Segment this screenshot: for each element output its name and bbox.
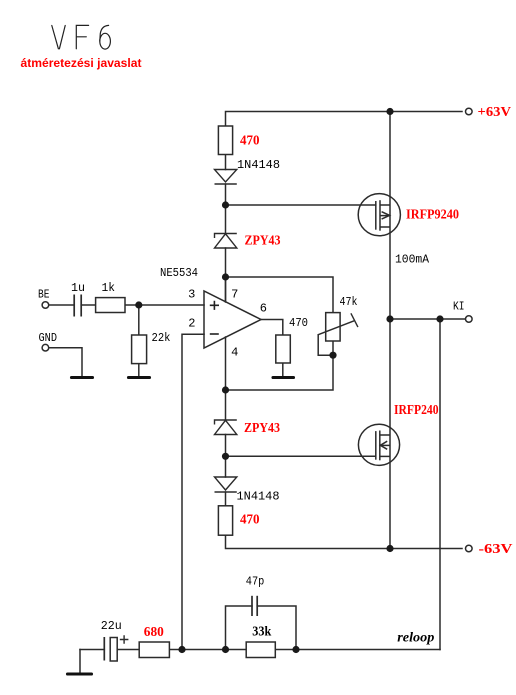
svg-text:-63V: -63V: [479, 542, 513, 557]
svg-text:22u: 22u: [101, 619, 122, 633]
svg-text:ZPY43: ZPY43: [245, 234, 281, 249]
svg-text:1N4148: 1N4148: [237, 490, 280, 504]
svg-text:1N4148: 1N4148: [237, 158, 280, 172]
svg-text:47p: 47p: [246, 575, 264, 589]
svg-text:3: 3: [188, 288, 195, 302]
svg-text:680: 680: [144, 625, 164, 640]
svg-text:IRFP9240: IRFP9240: [406, 208, 459, 223]
svg-text:BE: BE: [38, 288, 50, 302]
svg-text:470: 470: [240, 134, 260, 149]
svg-text:KI: KI: [453, 300, 465, 314]
svg-text:470: 470: [240, 513, 260, 528]
svg-text:IRFP240: IRFP240: [394, 403, 439, 418]
svg-text:33k: 33k: [252, 625, 271, 640]
svg-text:1u: 1u: [71, 281, 85, 295]
svg-text:47k: 47k: [340, 295, 358, 309]
svg-text:2: 2: [188, 317, 195, 331]
svg-text:átméretezési javaslat: átméretezési javaslat: [21, 56, 142, 70]
svg-text:NE5534: NE5534: [160, 266, 198, 280]
svg-text:ZPY43: ZPY43: [244, 421, 280, 436]
svg-text:22k: 22k: [152, 331, 171, 345]
svg-text:6: 6: [260, 302, 267, 316]
svg-text:100mA: 100mA: [395, 253, 430, 267]
svg-text:+63V: +63V: [478, 105, 512, 120]
svg-text:470: 470: [289, 316, 308, 330]
svg-text:7: 7: [231, 288, 238, 302]
svg-text:GND: GND: [39, 331, 58, 345]
svg-text:4: 4: [231, 346, 238, 360]
svg-text:1k: 1k: [102, 281, 116, 295]
svg-text:reloop: reloop: [397, 631, 434, 646]
